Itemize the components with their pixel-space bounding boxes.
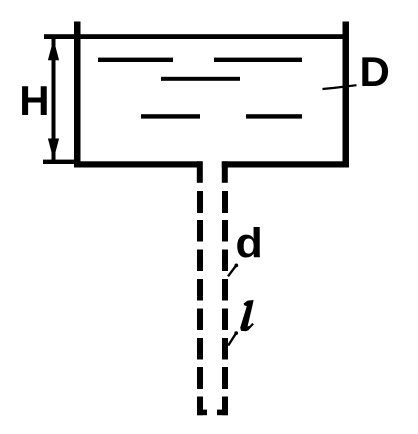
tank bottom left segment <box>74 161 202 167</box>
H dimension top arrowhead <box>48 39 59 60</box>
tank bottom right segment <box>222 161 349 167</box>
tube mouth left stub <box>197 161 203 183</box>
H dimension bottom arrowhead <box>48 139 59 160</box>
water dash row3 left <box>141 114 200 118</box>
water dash row1 left <box>98 58 173 62</box>
tube mouth right stub <box>222 161 228 183</box>
tube right dashed line <box>222 191 228 415</box>
svg-text:d: d <box>235 219 263 266</box>
tank left wall <box>74 22 81 168</box>
water dash row1 right <box>214 58 302 62</box>
svg-text:D: D <box>360 48 390 95</box>
water dash row3 right <box>246 114 302 118</box>
H dimension vertical line <box>52 38 56 160</box>
tube left dashed line <box>197 191 203 415</box>
tank right wall <box>343 22 350 168</box>
svg-text:H: H <box>19 77 49 124</box>
tube left bottom foot <box>197 410 207 416</box>
label l (script ell drawn as path) <box>240 300 254 331</box>
water dash row2 <box>161 77 240 81</box>
tube right bottom foot <box>217 410 228 416</box>
leader arrow for d <box>228 265 236 276</box>
leader line to D <box>323 85 357 89</box>
leader arrow for l <box>228 333 236 346</box>
water surface line with H top tick <box>44 34 349 39</box>
H dimension bottom tick <box>43 160 75 164</box>
